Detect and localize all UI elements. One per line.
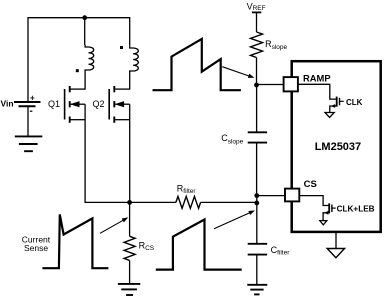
svg-text:Q1: Q1 (48, 99, 60, 109)
svg-text:slope: slope (272, 44, 288, 51)
svg-text:RAMP: RAMP (303, 72, 331, 83)
svg-text:LM25037: LM25037 (315, 141, 361, 153)
svg-text:slope: slope (228, 138, 244, 145)
svg-text:CLK: CLK (346, 98, 363, 107)
svg-text:Vin: Vin (1, 99, 14, 109)
svg-text:Sense: Sense (24, 243, 48, 253)
svg-text:CS: CS (304, 179, 317, 190)
svg-text:CLK+LEB: CLK+LEB (337, 204, 375, 213)
svg-text:REF: REF (253, 5, 266, 12)
svg-text:+: + (30, 94, 35, 103)
svg-text:CS: CS (145, 245, 155, 252)
svg-text:filter: filter (277, 250, 290, 257)
svg-text:filter: filter (183, 188, 196, 195)
svg-text:Q2: Q2 (93, 99, 105, 109)
